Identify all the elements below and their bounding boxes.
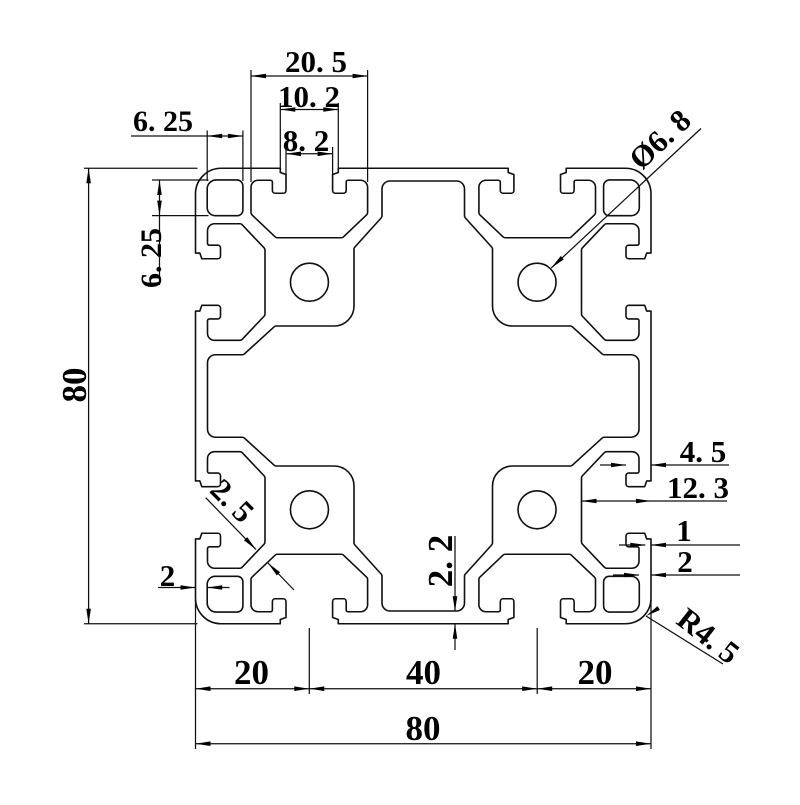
hole 6.8 top-left [290, 263, 328, 301]
dim 2 wall thickness left [158, 587, 196, 589]
hole 6.8 bottom-left [290, 491, 328, 529]
svg-text:12. 3: 12. 3 [667, 470, 729, 505]
dim 2.5 diagonal wall [206, 498, 256, 550]
svg-text:80: 80 [406, 709, 441, 748]
svg-text:4. 5: 4. 5 [680, 434, 727, 469]
svg-text:20. 5: 20. 5 [285, 44, 347, 79]
dim 80 overall width [196, 743, 652, 745]
leader R4.5 corner radius [646, 616, 723, 664]
dim 2 wall thickness right [613, 574, 639, 576]
dim 80 overall height [84, 167, 198, 169]
leader dim Ø6.8 hole [551, 129, 701, 268]
corner cavity bottom-right [604, 576, 640, 612]
dim 20.5 top slot cavity width [250, 70, 252, 182]
svg-text:2: 2 [160, 558, 176, 593]
dim 20/40/20 bottom slot spacing [195, 600, 197, 749]
svg-text:2. 5: 2. 5 [204, 472, 262, 530]
dim 6.25 corner cavity width [206, 131, 208, 182]
svg-text:20: 20 [234, 653, 269, 692]
svg-text:10. 2: 10. 2 [278, 79, 340, 114]
dim 8.2 slot opening [285, 147, 287, 176]
dim 1 lip step [619, 544, 645, 546]
corner cavity bottom-left [207, 576, 243, 612]
svg-text:8. 2: 8. 2 [283, 123, 330, 158]
hole 6.8 top-right [518, 263, 556, 301]
corner cavity top-right [604, 180, 640, 216]
dim 2.2 bottom wall thickness [454, 536, 456, 611]
corner cavity top-left [207, 180, 243, 216]
svg-text:80: 80 [55, 368, 94, 403]
dim 6.25 corner cavity height [152, 179, 209, 181]
svg-text:2. 2: 2. 2 [421, 535, 460, 588]
svg-text:Ø6. 8: Ø6. 8 [622, 102, 698, 176]
svg-text:6. 25: 6. 25 [135, 228, 168, 288]
svg-text:20: 20 [578, 653, 613, 692]
svg-text:R4. 5: R4. 5 [671, 601, 747, 671]
svg-text:1: 1 [676, 513, 692, 548]
svg-text:40: 40 [406, 653, 441, 692]
svg-text:6. 25: 6. 25 [133, 105, 193, 138]
dim 4.5 lip depth [600, 464, 626, 466]
dim 10.2 slot mouth outer width [279, 103, 281, 172]
dim 12.3 slot depth [582, 500, 728, 502]
svg-text:2: 2 [677, 544, 693, 579]
hole 6.8 bottom-right [518, 491, 556, 529]
centre cross cavity [208, 181, 640, 611]
profile outer outline with eight T-slots [196, 168, 652, 624]
